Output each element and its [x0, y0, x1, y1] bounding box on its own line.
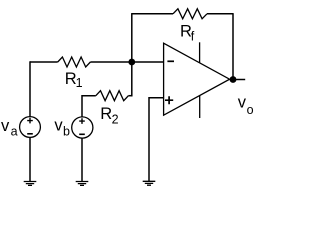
wire vb up and over to R2: [82, 96, 96, 118]
source va minus: [27, 133, 33, 135]
resistor R2: [96, 91, 129, 101]
wire junction vertical (top rail to R2): [131, 13, 133, 96]
ground (vb): [76, 182, 89, 186]
source vb minus: [79, 133, 85, 135]
source vb plus: [79, 118, 85, 124]
svg-text:b: b: [63, 125, 70, 139]
wire output stub: [233, 79, 245, 81]
wire right rail down to output: [232, 13, 234, 79]
source va plus: [27, 118, 33, 124]
wire below vb: [81, 138, 83, 181]
ground (noninverting input): [143, 181, 156, 185]
wire R2 to junction vertical: [128, 95, 132, 97]
source va circle: [20, 117, 41, 138]
wire top-right (Rf to right rail): [207, 13, 233, 15]
svg-text:1: 1: [76, 76, 83, 90]
op-amp minus input symbol: [167, 60, 174, 62]
ground (va): [24, 182, 37, 186]
op-amp positive supply pin: [199, 42, 201, 63]
svg-text:a: a: [11, 124, 18, 138]
wire va top to R1: [30, 61, 58, 63]
node A junction dot: [128, 59, 135, 66]
source vb circle: [72, 117, 93, 138]
svg-text:o: o: [247, 103, 254, 117]
svg-text:f: f: [191, 30, 195, 44]
svg-text:R: R: [100, 105, 112, 123]
svg-text:v: v: [1, 117, 10, 135]
op-amp plus input symbol: [165, 96, 173, 104]
wire below va: [29, 137, 31, 181]
svg-text:v: v: [238, 94, 247, 112]
op-amp negative supply pin: [199, 96, 201, 118]
wire left vertical (corner to va): [29, 61, 31, 116]
op-amp U1 triangle: [164, 43, 230, 115]
resistor R1: [58, 57, 91, 67]
svg-text:2: 2: [112, 113, 119, 127]
wire top-left (node A to Rf): [132, 13, 173, 15]
wire noninverting input to ground rail: [149, 98, 164, 181]
output node dot: [230, 76, 237, 83]
wire R1 to node A: [90, 61, 131, 63]
resistor Rf: [173, 9, 207, 19]
wire node A to inverting input: [132, 61, 164, 63]
